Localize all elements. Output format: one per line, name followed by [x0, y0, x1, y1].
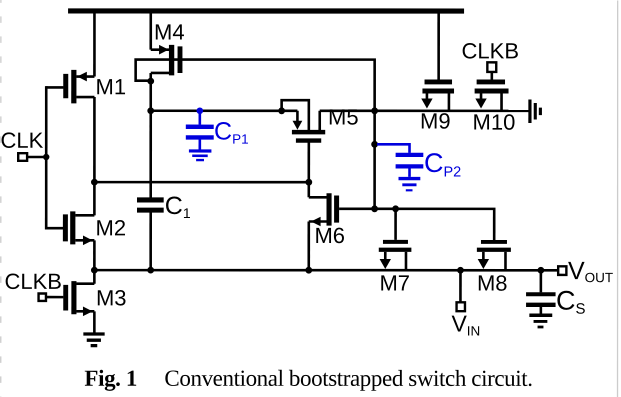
svg-text:M6: M6 — [314, 223, 345, 248]
svg-text:M8: M8 — [477, 271, 508, 296]
svg-text:M4: M4 — [154, 19, 185, 44]
svg-text:CLK: CLK — [1, 128, 44, 153]
svg-text:Fig. 1: Fig. 1 — [84, 366, 137, 391]
svg-text:M1: M1 — [96, 74, 127, 99]
svg-text:CLKB: CLKB — [462, 38, 519, 63]
svg-text:M7: M7 — [379, 271, 410, 296]
svg-text:M5: M5 — [328, 105, 359, 130]
svg-text:CLKB: CLKB — [4, 269, 61, 294]
svg-text:M9: M9 — [420, 109, 451, 134]
svg-text:M2: M2 — [95, 215, 126, 240]
svg-text:M10: M10 — [473, 110, 516, 135]
svg-text:Conventional bootstrapped swit: Conventional bootstrapped switch circuit… — [164, 366, 532, 391]
svg-text:M3: M3 — [96, 285, 127, 310]
